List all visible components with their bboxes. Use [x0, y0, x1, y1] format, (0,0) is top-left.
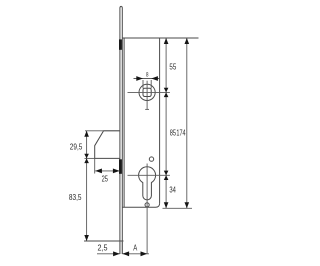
- bracket left face extension line: [94, 158, 96, 173]
- lock case top edge with extension line: [122, 37, 198, 39]
- svg-text:55: 55: [169, 62, 176, 72]
- svg-text:34: 34: [169, 184, 176, 194]
- arrow up dim55 top: [164, 38, 169, 44]
- dimension line 2,5: [97, 253, 120, 255]
- small hole below cylinder: [145, 203, 149, 207]
- arrow right dim2,5: [113, 251, 120, 256]
- svg-text:2,5: 2,5: [98, 244, 108, 253]
- bottom extension line right: [163, 207, 193, 209]
- arrow left dim25: [95, 169, 102, 174]
- arrow up dim29,5: [84, 131, 89, 137]
- follower square hole: [143, 88, 151, 96]
- arrow down dim83,5: [84, 235, 89, 241]
- dimension line right outer: [186, 38, 188, 208]
- faceplate extension lines bottom: [119, 241, 121, 254]
- dimension line right inner: [165, 38, 167, 208]
- arrow right dim25: [113, 169, 120, 174]
- dimension line 25: [95, 170, 119, 172]
- arrow left dim8: [151, 76, 158, 81]
- left dimension line: [86, 131, 88, 241]
- arrow right dim8: [136, 76, 143, 81]
- bracket top extension line: [85, 130, 120, 132]
- arrow down dim174 bottom: [185, 202, 190, 208]
- extension lines of square: [142, 80, 144, 89]
- svg-text:29,5: 29,5: [70, 143, 83, 152]
- arrow left dimA: [122, 251, 129, 256]
- svg-text:174: 174: [176, 128, 185, 138]
- svg-text:A: A: [133, 244, 137, 253]
- lock case bottom edge with fillet: [122, 203, 159, 207]
- bowtie at cylinder center: [164, 171, 169, 180]
- cylinder horizontal centerline: [128, 174, 170, 176]
- screw slot mark upper: [119, 39, 122, 49]
- euro cylinder hole: [139, 167, 156, 200]
- faceplate right edge: [121, 6, 122, 254]
- dimension line A: [122, 253, 149, 255]
- bowtie at follower center: [164, 88, 169, 97]
- dimension line 8: [134, 78, 160, 80]
- svg-text:25: 25: [102, 175, 109, 184]
- arrow down dim34 bottom: [164, 202, 169, 208]
- small hole beside cylinder: [149, 157, 153, 161]
- follower horizontal centerline: [128, 91, 170, 93]
- faceplate bottom edge: [84, 240, 124, 242]
- cylinder vertical centerline: [146, 164, 148, 254]
- arrow up dim174 top: [185, 38, 190, 44]
- lock case right edge: [159, 38, 161, 203]
- screw slot mark lower: [119, 159, 122, 174]
- follower vertical centerline: [146, 81, 148, 110]
- centerline end tick: [145, 108, 149, 110]
- bowtie at bracket bottom: [84, 154, 89, 163]
- svg-text:85: 85: [170, 128, 177, 138]
- bracket bottom extension line: [85, 157, 95, 159]
- svg-text:83,5: 83,5: [69, 193, 82, 202]
- lock case left edge: [123, 38, 125, 207]
- latch bracket outline: [95, 131, 120, 159]
- arrow right dimA: [141, 251, 148, 256]
- follower outer circle: [139, 84, 155, 100]
- faceplate left edge: [120, 6, 121, 254]
